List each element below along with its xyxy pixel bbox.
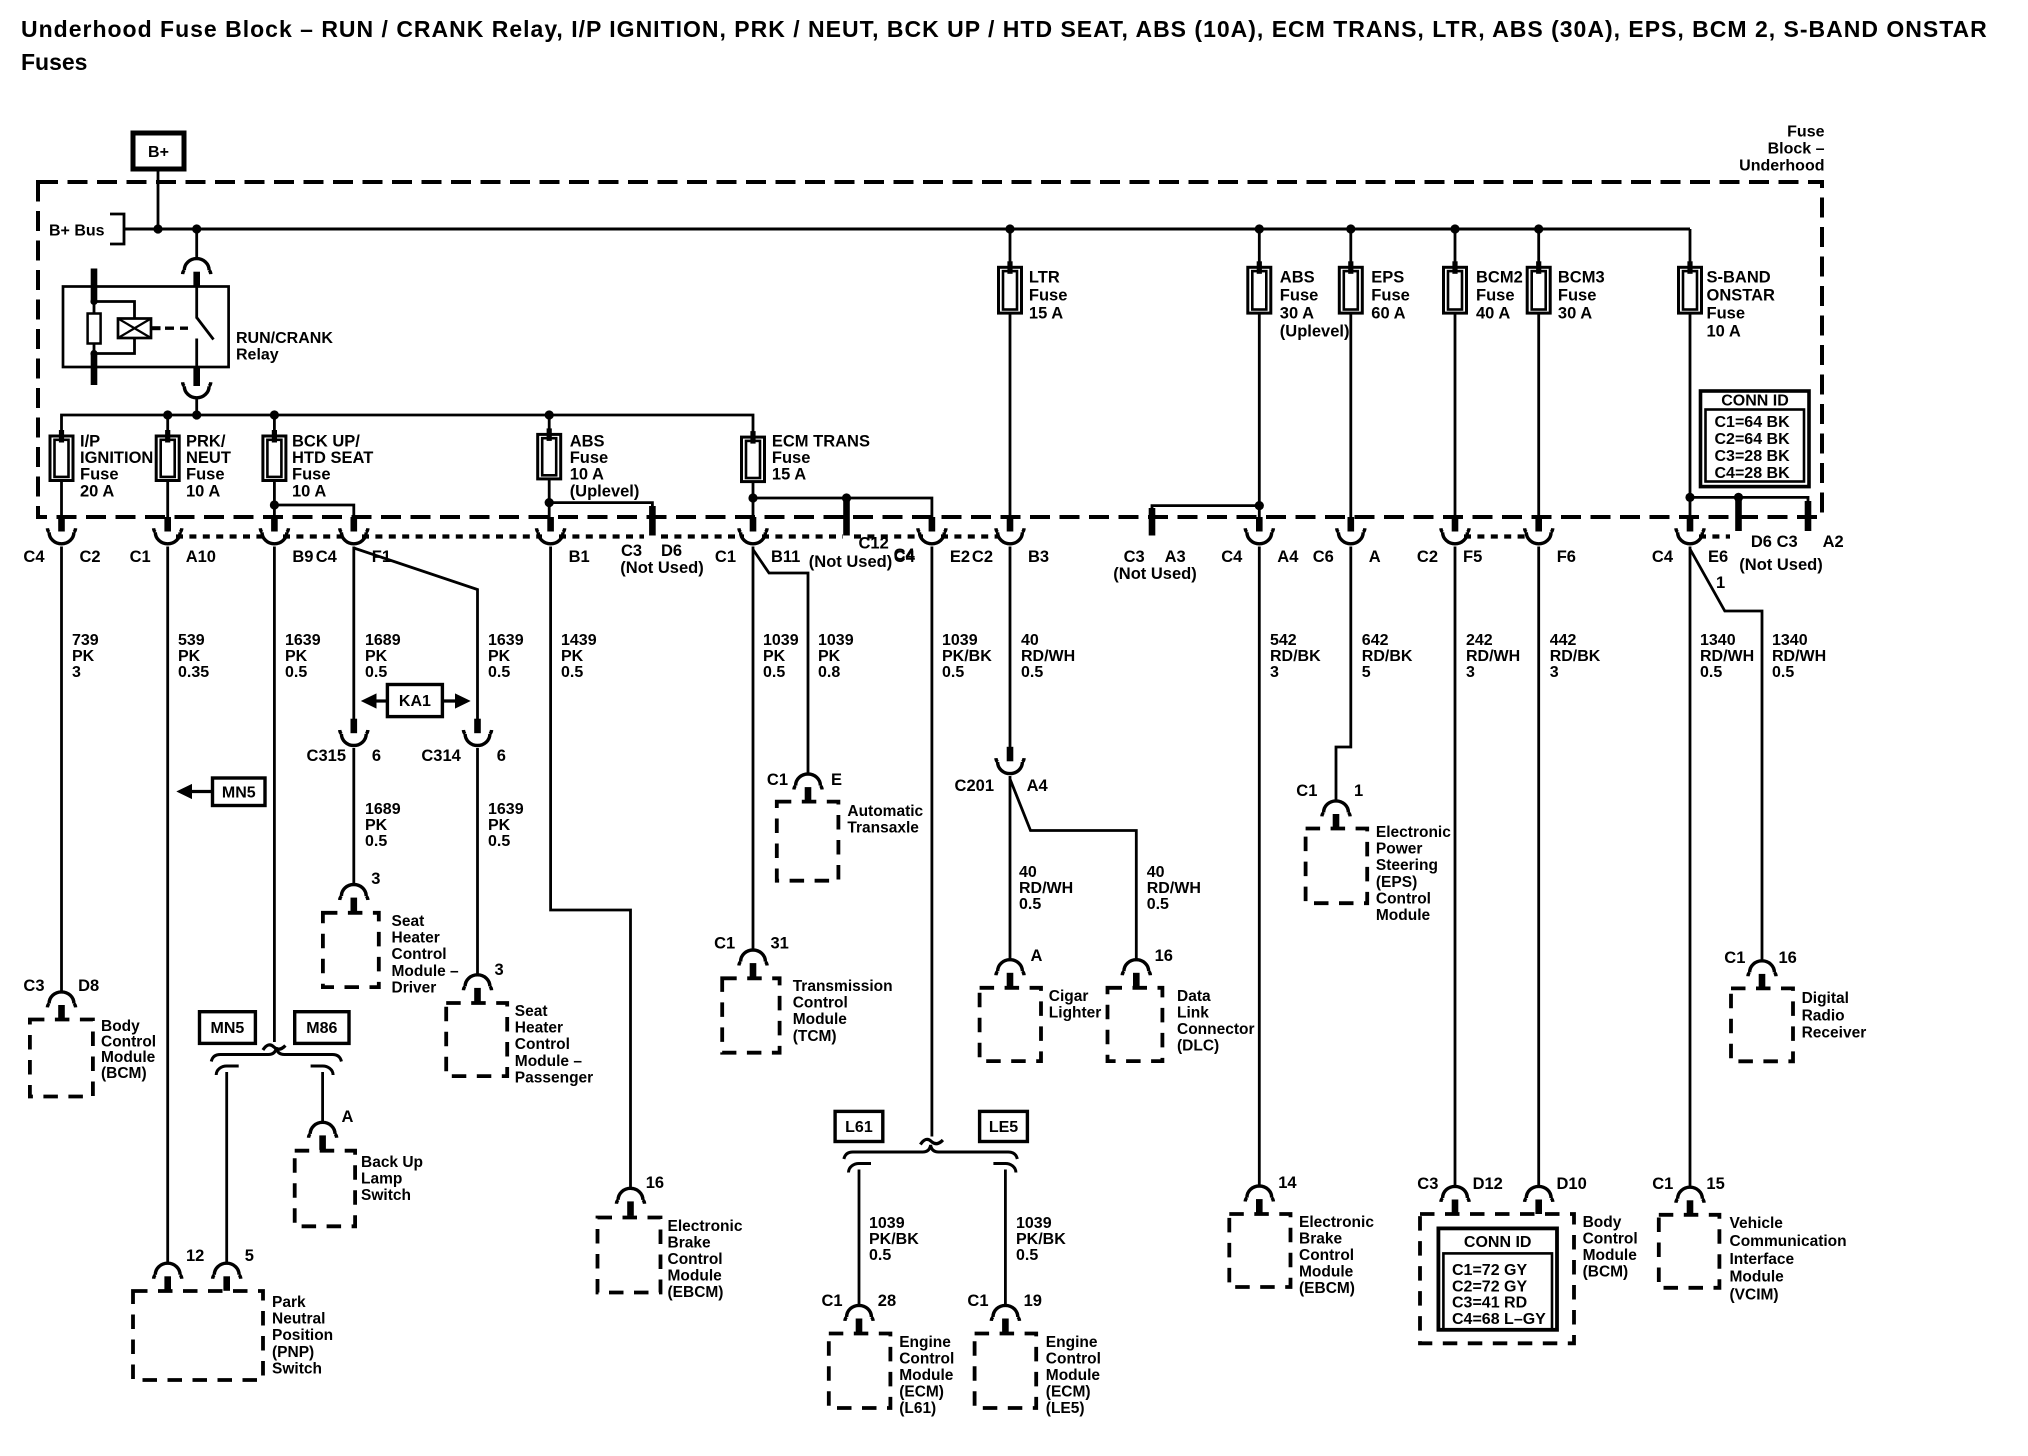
relay bottom pin [193,367,200,386]
connector C4/E2 at fuse block exit [918,517,946,544]
svg-text:Power: Power [1376,841,1423,858]
junction dots on feed line [163,410,172,419]
connector C6/A at fuse block exit [1337,517,1365,544]
svg-text:RD/BK: RD/BK [1362,648,1413,665]
wire 739 PK from C2 to BCM [60,547,63,992]
svg-text:Engine: Engine [1046,1334,1098,1351]
engine harness brace [844,1145,1017,1159]
svg-text:(L61): (L61) [899,1400,936,1417]
svg-text:B+: B+ [148,144,169,161]
svg-text:PK: PK [285,648,308,665]
svg-text:B9: B9 [292,548,313,566]
svg-text:1039: 1039 [763,632,799,649]
wire 1340 RD/WH diagonal branch to radio pin 1 [1690,549,1762,960]
svg-text:C1: C1 [714,935,735,953]
module Transmission Control Module TCM box [722,978,779,1052]
svg-text:442: 442 [1550,632,1577,649]
svg-text:PK: PK [488,817,511,834]
B+ power symbol [133,133,184,169]
svg-text:ABS: ABS [1280,269,1315,287]
svg-text:Relay: Relay [236,347,279,364]
relay coil left pin top [91,269,98,302]
svg-text:16: 16 [1779,949,1797,967]
svg-text:C4: C4 [23,548,45,566]
stub A2 [1805,501,1812,531]
svg-text:PK: PK [561,648,584,665]
svg-text:ABS: ABS [570,433,605,451]
svg-text:40: 40 [1019,864,1037,881]
svg-text:Control: Control [1583,1231,1638,1248]
svg-text:16: 16 [646,1174,664,1192]
KA1 reference arrows [373,699,387,702]
relay switch blade [197,318,214,340]
svg-text:PK: PK [488,648,511,665]
junction dots on bus [153,224,162,233]
connector /B9 at fuse block exit [260,517,288,544]
svg-text:A: A [1031,947,1043,965]
svg-text:10 A: 10 A [570,466,604,484]
svg-text:539: 539 [178,632,205,649]
svg-text:Vehicle: Vehicle [1730,1215,1784,1232]
svg-text:D6: D6 [661,542,682,560]
module Vehicle Communication Interface Module VCIM box [1659,1215,1720,1288]
svg-text:60 A: 60 A [1371,305,1405,323]
svg-text:PK: PK [818,648,841,665]
svg-text:PRK/: PRK/ [186,433,226,451]
module Automatic Transaxle box [777,802,839,881]
svg-text:0.5: 0.5 [1016,1247,1038,1264]
fuse ECM TRANS 15A [742,437,765,482]
svg-text:10 A: 10 A [186,482,220,500]
connector /F6 at fuse block exit [1525,517,1553,544]
svg-text:RD/WH: RD/WH [1772,648,1826,665]
svg-text:Lighter: Lighter [1049,1005,1102,1022]
fuse S-BAND with wire from bus [1689,229,1692,267]
svg-text:RD/WH: RD/WH [1147,880,1201,897]
svg-text:F5: F5 [1463,548,1482,566]
svg-text:Module: Module [1046,1367,1101,1384]
svg-text:Digital: Digital [1802,990,1849,1007]
svg-text:40: 40 [1147,864,1165,881]
svg-text:Radio: Radio [1802,1007,1845,1024]
wire I/P fuse to border [60,481,63,518]
svg-text:Body: Body [101,1018,140,1035]
svg-text:(TCM): (TCM) [793,1028,837,1045]
svg-text:Transaxle: Transaxle [847,820,919,837]
wire 1039 PK/BK to ECM L61 [858,1170,861,1306]
svg-text:B1: B1 [569,548,590,566]
connector pin 5 at PNP switch [213,1263,241,1291]
svg-text:Fuse: Fuse [1707,305,1746,323]
svg-text:(BCM): (BCM) [1583,1264,1629,1281]
svg-text:B3: B3 [1028,548,1049,566]
svg-text:(Uplevel): (Uplevel) [570,482,640,500]
svg-text:15: 15 [1706,1175,1724,1193]
svg-text:Control: Control [1046,1351,1101,1368]
svg-text:Fuse: Fuse [1476,287,1515,305]
svg-text:B+ Bus: B+ Bus [49,223,105,240]
svg-text:642: 642 [1362,632,1389,649]
fuse BCM2 with wire from bus [1454,229,1457,267]
svg-text:Electronic: Electronic [1299,1214,1374,1231]
fuse LTR with wire from bus [1009,229,1012,267]
MN5 reference arrow [189,790,213,793]
relay top connector arc [183,259,211,287]
svg-text:BCM3: BCM3 [1558,269,1605,287]
svg-text:10 A: 10 A [1707,323,1741,341]
right hook to ECM LE5 [993,1163,1016,1172]
svg-text:0.8: 0.8 [818,664,840,681]
svg-text:Receiver: Receiver [1802,1025,1867,1042]
svg-text:C201: C201 [955,777,994,795]
svg-text:30 A: 30 A [1558,305,1592,323]
svg-text:0.5: 0.5 [488,833,510,850]
svg-text:Seat: Seat [515,1003,548,1020]
wire PRK fuse to border [166,481,169,518]
svg-text:Steering: Steering [1376,857,1438,874]
svg-text:C4=28 BK: C4=28 BK [1715,465,1791,482]
svg-text:0.5: 0.5 [1147,896,1169,913]
connector pin A at back up lamp switch [309,1122,337,1150]
wire 1340 RD/WH from E6 to VCIM [1689,547,1692,1187]
svg-text:0.5: 0.5 [1700,664,1722,681]
svg-text:MN5: MN5 [222,784,256,801]
wire B+ to bus [157,169,160,229]
left harness hook [216,1066,239,1075]
svg-text:IGNITION: IGNITION [80,449,153,467]
svg-text:RUN/CRANK: RUN/CRANK [236,330,333,347]
svg-text:0.5: 0.5 [763,664,785,681]
svg-text:C314: C314 [421,747,461,765]
svg-text:Underhood Fuse Block – RUN / C: Underhood Fuse Block – RUN / CRANK Relay… [21,16,1988,42]
svg-text:C1: C1 [967,1292,988,1310]
module Electronic Brake Control Module EBCM box 2 [1229,1214,1290,1287]
L61 label box [835,1111,883,1141]
svg-text:542: 542 [1270,632,1297,649]
wire 40 RD/WH branch to DLC [1010,779,1136,959]
svg-text:(ECM): (ECM) [1046,1384,1091,1401]
svg-text:Fuse: Fuse [186,466,225,484]
svg-text:Body: Body [1583,1214,1622,1231]
svg-text:L61: L61 [845,1119,873,1136]
svg-text:Park: Park [272,1294,306,1311]
wire 642 RD/BK from A to EPS module [1336,547,1351,801]
wire BCM3 fuse to border [1537,313,1540,517]
svg-text:A: A [1369,548,1381,566]
svg-text:A4: A4 [1027,777,1049,795]
wire LTR fuse to border [1009,313,1012,517]
svg-text:RD/WH: RD/WH [1021,648,1075,665]
svg-text:Control: Control [101,1034,156,1051]
svg-text:RD/WH: RD/WH [1019,880,1073,897]
svg-text:Control: Control [668,1251,723,1268]
wire bus to relay connector [195,229,198,258]
svg-text:Control: Control [899,1351,954,1368]
svg-text:Automatic: Automatic [847,803,923,820]
svg-text:C1: C1 [1652,1175,1673,1193]
svg-text:0.5: 0.5 [488,664,510,681]
svg-text:5: 5 [1362,664,1371,681]
svg-text:1689: 1689 [365,801,401,818]
module Engine Control Module ECM LE5 box [975,1334,1037,1409]
svg-text:1039: 1039 [942,632,978,649]
svg-text:C2: C2 [1417,548,1438,566]
svg-text:3: 3 [1466,664,1475,681]
relay coil (X box) [118,319,151,339]
svg-text:C1: C1 [822,1292,843,1310]
svg-text:5: 5 [245,1247,254,1265]
svg-text:Underhood: Underhood [1739,158,1824,175]
svg-text:EPS: EPS [1371,269,1404,287]
svg-text:12: 12 [186,1247,204,1265]
svg-text:Switch: Switch [361,1187,411,1204]
svg-text:0.5: 0.5 [869,1247,891,1264]
svg-text:C2=64 BK: C2=64 BK [1715,431,1791,448]
fuse I/P IGNITION 20A [50,436,73,481]
wire 1039 PK/BK to ECM LE5 [1004,1170,1007,1306]
svg-text:1039: 1039 [818,632,854,649]
wire 442 RD/BK from F6 to BCM [1537,547,1540,1187]
svg-text:C3: C3 [23,977,44,995]
svg-text:1639: 1639 [285,632,321,649]
fuse BCM3 with wire from bus [1537,229,1540,267]
wire to back up lamp switch pin A [321,1072,324,1122]
right harness hook [311,1066,334,1075]
svg-text:0.35: 0.35 [178,664,209,681]
connector C4/E6 at fuse block exit [1676,517,1704,544]
svg-text:PK: PK [763,648,786,665]
wire 1439 PK from B1 to EBCM [551,547,631,1188]
stub D6 not used [649,506,656,536]
svg-text:Fuse: Fuse [1280,287,1319,305]
wire ECM TRANS fuse to border, branches to C12 and C4/E2 [753,482,932,517]
svg-text:Heater: Heater [392,930,440,947]
svg-text:C1: C1 [130,548,151,566]
svg-text:C4: C4 [316,548,338,566]
svg-text:28: 28 [878,1292,896,1310]
svg-text:Connector: Connector [1177,1021,1255,1038]
svg-text:1340: 1340 [1772,632,1808,649]
svg-text:E: E [831,771,842,789]
svg-text:BCM2: BCM2 [1476,269,1523,287]
svg-text:C4: C4 [1221,548,1243,566]
svg-text:Fuse: Fuse [772,449,811,467]
svg-text:ONSTAR: ONSTAR [1707,287,1776,305]
svg-text:Module –: Module – [515,1053,583,1070]
stub D6 C3 not used [1735,497,1742,531]
svg-text:C3: C3 [621,542,642,560]
svg-text:Control: Control [1299,1247,1354,1264]
wire BCM2 fuse to border [1454,313,1457,517]
svg-text:PK: PK [365,817,388,834]
svg-text:A2: A2 [1823,533,1844,551]
wire 1039 PK from B11 to TCM [752,547,755,950]
wire ABS fuse to border and branch to D6 not used [549,479,652,517]
svg-text:(EPS): (EPS) [1376,874,1417,891]
module Cigar Lighter box [980,988,1041,1061]
svg-text:Control: Control [1376,890,1431,907]
svg-text:16: 16 [1155,947,1173,965]
svg-text:NEUT: NEUT [186,449,231,467]
svg-text:Engine: Engine [899,1334,951,1351]
svg-text:C1: C1 [1296,782,1317,800]
svg-text:(DLC): (DLC) [1177,1038,1219,1055]
svg-text:Transmission: Transmission [793,978,893,995]
svg-text:Fuse: Fuse [1787,124,1824,141]
svg-text:1639: 1639 [488,632,524,649]
harness brace under MN5/M86 [211,1048,341,1062]
svg-text:F6: F6 [1557,548,1576,566]
fuse EPS with wire from bus [1349,229,1352,267]
svg-text:Module: Module [793,1011,848,1028]
svg-text:I/P: I/P [80,433,100,451]
left hook to ECM L61 [848,1163,871,1172]
svg-text:Lamp: Lamp [361,1171,402,1188]
svg-text:B11: B11 [771,548,800,566]
svg-text:(EBCM): (EBCM) [1299,1280,1355,1297]
svg-text:3: 3 [371,870,380,888]
svg-text:CONN ID: CONN ID [1721,393,1789,410]
svg-text:31: 31 [771,935,789,953]
module Seat Heater Control Module - Driver box [323,913,379,987]
wire 1639 PK from B9 C4 to splice brace [273,547,276,1043]
svg-text:15 A: 15 A [1029,305,1063,323]
connector C2/B3 at fuse block exit [996,517,1024,544]
module Park Neutral Position PNP Switch box [133,1291,263,1380]
wire B+ bus horizontal [124,228,1690,231]
svg-text:(LE5): (LE5) [1046,1400,1085,1417]
LE5 label box [980,1111,1028,1141]
svg-text:PK: PK [72,648,95,665]
fuse block underhood dashed border [38,182,1822,517]
module Data Link Connector DLC box [1108,988,1163,1061]
svg-text:242: 242 [1466,632,1493,649]
svg-text:C6: C6 [1313,548,1334,566]
relay U1 RUN/CRANK box [63,287,229,368]
svg-text:(EBCM): (EBCM) [668,1284,724,1301]
svg-text:Module: Module [101,1049,156,1066]
svg-text:Passenger: Passenger [515,1069,593,1086]
relay coil left pin bottom [91,354,98,386]
svg-text:A3: A3 [1165,548,1186,566]
svg-text:Driver: Driver [392,979,437,996]
svg-text:40 A: 40 A [1476,305,1510,323]
svg-text:Brake: Brake [1299,1231,1342,1248]
B+ Bus bracket [110,214,124,244]
svg-text:Brake: Brake [668,1235,711,1252]
svg-text:ECM TRANS: ECM TRANS [772,433,870,451]
svg-text:Module: Module [1730,1269,1785,1286]
svg-text:(Not Used): (Not Used) [620,559,703,577]
stub A3 not used [1149,508,1156,536]
svg-text:MN5: MN5 [211,1020,245,1037]
svg-text:Fuse: Fuse [1029,287,1068,305]
svg-text:D6 C3: D6 C3 [1751,533,1798,551]
svg-text:6: 6 [497,747,506,765]
svg-text:Control: Control [515,1036,570,1053]
wire ABS30 fuse to border with branch to A3 not used [1152,313,1259,517]
svg-text:0.5: 0.5 [561,664,583,681]
svg-text:1039: 1039 [1016,1215,1052,1232]
svg-text:Fuse: Fuse [292,466,331,484]
svg-text:RD/BK: RD/BK [1270,648,1321,665]
svg-text:CONN ID: CONN ID [1464,1234,1532,1251]
wire 1639 PK diagonal from F1 to C314 [354,548,478,720]
svg-text:C3=41 RD: C3=41 RD [1452,1295,1527,1312]
svg-text:Module: Module [1583,1247,1638,1264]
svg-text:(Uplevel): (Uplevel) [1280,323,1350,341]
svg-text:Control: Control [392,946,447,963]
connector C1/A10 at fuse block exit [154,517,182,544]
svg-text:LE5: LE5 [989,1119,1018,1136]
svg-text:1639: 1639 [488,801,524,818]
svg-text:0.5: 0.5 [285,664,307,681]
svg-text:Heater: Heater [515,1020,563,1037]
wire relay to feed line [195,399,198,416]
svg-text:D10: D10 [1557,1175,1587,1193]
svg-text:Cigar: Cigar [1049,988,1089,1005]
svg-text:Seat: Seat [392,913,425,930]
svg-text:3: 3 [72,664,81,681]
wire to PNP switch pin 5 [225,1072,228,1263]
module Engine Control Module ECM L61 box [829,1334,891,1409]
wire EPS fuse to border [1349,313,1352,517]
svg-text:C2: C2 [80,548,101,566]
svg-text:Fuses: Fuses [21,49,87,75]
svg-text:6: 6 [372,747,381,765]
connector C2/F5* at fuse block exit [1441,517,1469,544]
svg-text:1: 1 [1716,574,1725,592]
svg-text:PK/BK: PK/BK [1016,1231,1066,1248]
wire fused feed line [62,415,754,437]
svg-text:Module: Module [1376,907,1431,924]
wire 1689 PK from C315 to seat heater driver [352,748,355,884]
svg-text:C4: C4 [894,546,916,564]
svg-text:0.5: 0.5 [1019,896,1041,913]
svg-text:Module: Module [668,1268,723,1285]
svg-text:20 A: 20 A [80,482,114,500]
svg-text:E2: E2 [950,548,970,566]
svg-text:M86: M86 [306,1020,337,1037]
svg-text:Switch: Switch [272,1360,322,1377]
relay switch bottom contact [195,339,198,368]
svg-text:(Not Used): (Not Used) [809,553,892,571]
svg-text:C1: C1 [715,548,736,566]
svg-text:C1=64 BK: C1=64 BK [1715,414,1791,431]
module Electronic Brake Control Module EBCM box [598,1218,661,1293]
svg-text:C1=72 GY: C1=72 GY [1452,1262,1527,1279]
svg-text:LTR: LTR [1029,269,1060,287]
svg-text:PK/BK: PK/BK [942,648,992,665]
fuse ABS 10A (Uplevel) [548,415,551,434]
module Body Control Module BCM box with CONN ID [1420,1214,1574,1343]
fuse PRK/NEUT 10A [166,415,169,436]
stub C12 not used [843,498,850,536]
svg-text:1: 1 [1354,782,1363,800]
svg-text:30 A: 30 A [1280,305,1314,323]
svg-text:RD/WH: RD/WH [1466,648,1520,665]
svg-text:PK: PK [365,648,388,665]
svg-text:0.5: 0.5 [365,833,387,850]
svg-text:C3: C3 [1124,548,1145,566]
svg-text:A4: A4 [1277,548,1299,566]
connector C1/B11 at fuse block exit [739,517,767,544]
svg-text:(ECM): (ECM) [899,1384,944,1401]
svg-text:(PNP): (PNP) [272,1344,314,1361]
svg-text:(Not Used): (Not Used) [1113,565,1196,583]
svg-text:Module –: Module – [392,963,460,980]
MN5 label box [200,1012,256,1044]
